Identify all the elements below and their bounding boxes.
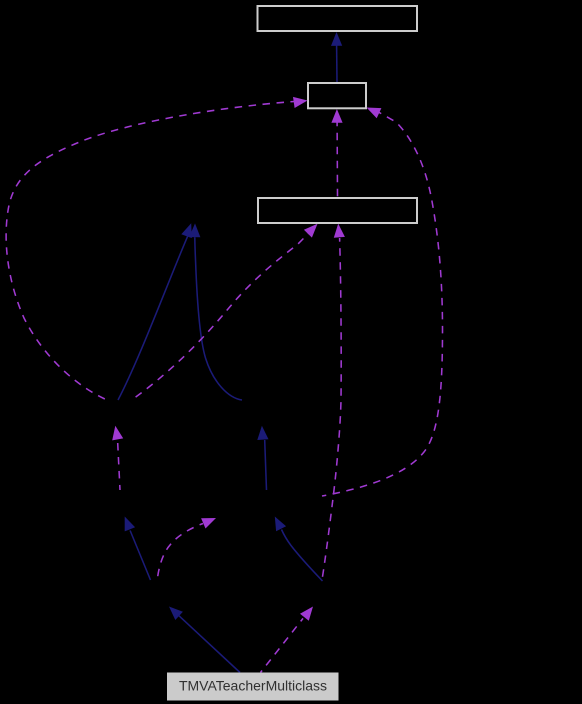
node box1 (top base class, unlabeled) xyxy=(258,6,418,31)
edge nodeA to nodeH, solid inheritance arrow xyxy=(118,223,192,400)
svg-text:TMVATeacherMulticlass: TMVATeacherMulticlass xyxy=(179,678,327,694)
node TMVATeacherMulticlass (current class, gray filled) xyxy=(168,673,339,700)
node box3 (wide middle class, unlabeled) xyxy=(258,198,417,223)
edge nodeA to box2, long dashed curve sweeping left xyxy=(6,97,307,400)
edge nodeC to nodeEG, dashed curve arrow pointing east xyxy=(158,518,217,578)
edge nodeD to nodeA, short dashed vertical arrow xyxy=(112,426,123,490)
edge nodeF to box3, long dashed vertical curve xyxy=(322,224,345,580)
edge nodeC to nodeD, solid inheritance arrow xyxy=(125,517,151,581)
edge nodeB to nodeH, curved solid inheritance arrow xyxy=(189,223,242,400)
edge nodeEG to box2, long dashed curve sweeping right xyxy=(322,108,443,497)
edge TMVATeacherMulticlass to nodeC, solid diagonal inheritance arrow xyxy=(169,607,240,673)
edge nodeG to nodeB, solid vertical inheritance arrow xyxy=(257,426,268,490)
edge TMVATeacherMulticlass to nodeF, dashed diagonal usage arrow xyxy=(261,607,314,673)
node box2 (small middle class, unlabeled) xyxy=(308,83,366,108)
edge nodeF to nodeG, solid diagonal inheritance arrow xyxy=(275,517,323,582)
edge nodeA to box3, dashed usage arrow diagonal xyxy=(133,224,318,399)
edge box3 to box2, dashed usage arrow xyxy=(331,109,342,197)
edge box2 to box1, solid inheritance arrow xyxy=(331,32,342,82)
